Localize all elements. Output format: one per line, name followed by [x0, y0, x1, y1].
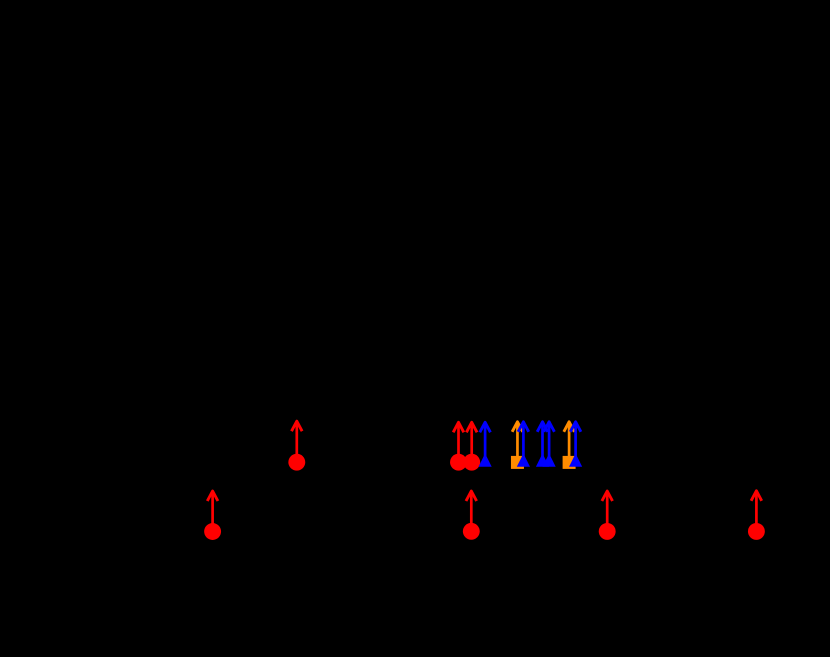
- red arrow from F: [602, 491, 613, 531]
- blue triangle marker T3: [536, 454, 549, 467]
- blue arrow from T2: [518, 422, 529, 461]
- red arrow from A: [207, 491, 218, 532]
- red circle marker E: [463, 523, 480, 540]
- red circle marker F: [599, 523, 616, 540]
- blue triangle marker T2: [517, 454, 530, 467]
- blue triangle marker T5: [569, 454, 582, 467]
- red circle marker A: [204, 523, 221, 540]
- blue arrow from T3: [537, 422, 548, 461]
- red arrow from B: [292, 421, 303, 462]
- blue arrow from T1: [480, 422, 491, 461]
- red circle marker C: [450, 454, 467, 471]
- blue triangle marker T1: [479, 454, 492, 467]
- orange arrow from S1: [512, 422, 523, 463]
- red arrow from E: [466, 491, 477, 531]
- red circle marker D: [463, 454, 480, 471]
- blue arrow from T5: [570, 422, 581, 461]
- orange arrow from S2: [564, 422, 575, 463]
- blue triangle marker T4: [543, 454, 556, 467]
- orange square marker S2: [563, 456, 576, 469]
- red arrow from G: [751, 491, 762, 532]
- red circle marker B: [288, 454, 305, 471]
- red arrow from C: [453, 422, 464, 462]
- red arrow from D: [466, 422, 477, 462]
- blue arrow from T4: [544, 422, 555, 461]
- red circle marker G: [748, 523, 765, 540]
- orange square marker S1: [511, 456, 524, 469]
